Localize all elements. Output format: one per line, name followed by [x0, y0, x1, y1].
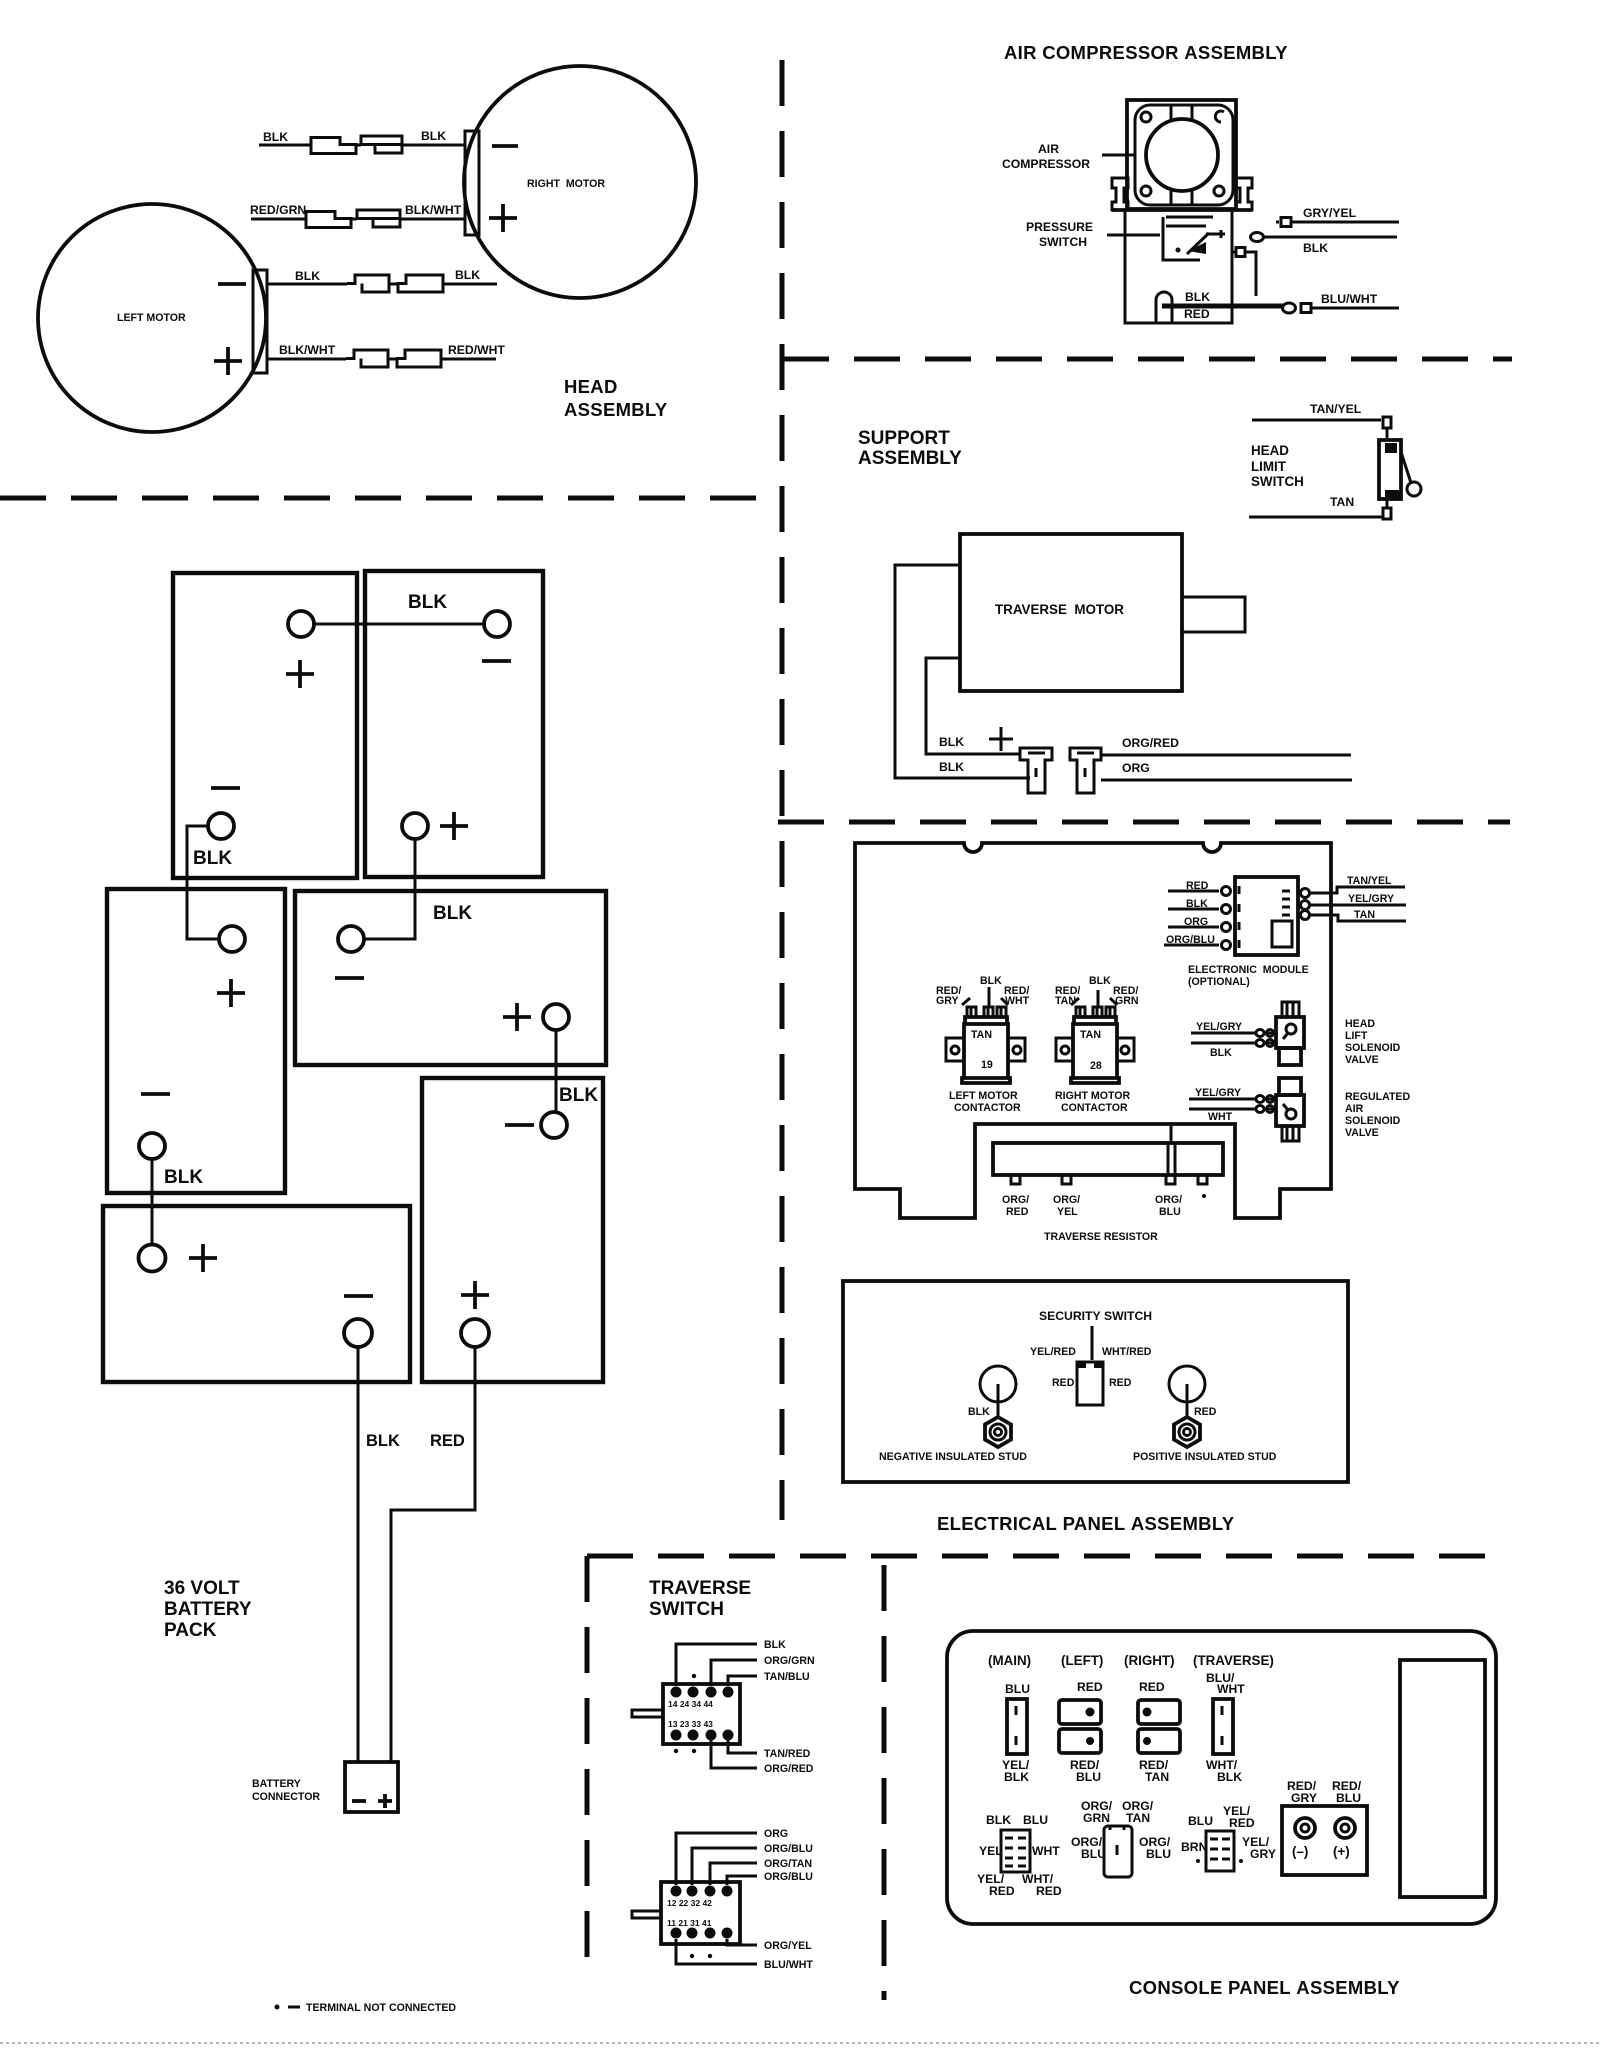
svg-text:ORG/: ORG/ — [1002, 1194, 1029, 1206]
compressor left mount bracket — [1112, 178, 1128, 210]
svg-text:GRY/YEL: GRY/YEL — [1303, 206, 1357, 220]
svg-text:ORG/: ORG/ — [1053, 1194, 1080, 1206]
svg-text:HEAD: HEAD — [564, 376, 618, 397]
K2 right ear — [1117, 1038, 1134, 1061]
svg-text:GRN: GRN — [1115, 995, 1139, 1007]
connector P3 body — [1206, 1831, 1234, 1871]
block A lever — [632, 1710, 663, 1717]
svg-text:BLK: BLK — [295, 269, 320, 283]
security switch S1 — [1077, 1362, 1103, 1405]
wire TAN/YEL to head limit switch — [1252, 419, 1381, 422]
wire YEL/GRY from module — [1310, 904, 1406, 907]
negative stud nut inner — [990, 1424, 1006, 1440]
battery B2 — [365, 571, 543, 877]
wire BLK to battery connector — [357, 1347, 360, 1762]
module right terminal 3 — [1301, 911, 1310, 920]
connector row3 female — [347, 275, 389, 292]
svg-text:HEAD: HEAD — [1345, 1018, 1375, 1030]
battery B6 — [103, 1206, 410, 1382]
CB1 upper half — [1059, 1700, 1101, 1724]
svg-text:RED: RED — [1109, 1377, 1132, 1389]
module left pin ticks — [1238, 886, 1241, 948]
terminal nut minus — [1295, 1818, 1315, 1838]
svg-text:11 21 31 41: 11 21 31 41 — [667, 1918, 712, 1928]
battery B1 — [173, 573, 357, 878]
module right terminal 1 — [1301, 889, 1310, 898]
svg-text:TAN/RED: TAN/RED — [764, 1748, 811, 1760]
wire ORG/TAN — [710, 1863, 757, 1885]
terminal ORG — [1222, 923, 1231, 932]
B1 plus — [286, 660, 314, 688]
svg-text:TAN: TAN — [1145, 1770, 1169, 1784]
block A bottom terminals — [671, 1730, 682, 1741]
B5 bottom terminal — [461, 1319, 489, 1347]
svg-text:ASSEMBLY: ASSEMBLY — [564, 399, 668, 420]
svg-text:YEL/GRY: YEL/GRY — [1196, 1021, 1242, 1033]
svg-text:COMPRESSOR: COMPRESSOR — [1002, 157, 1090, 171]
V2 WHT connector dots — [1256, 1106, 1264, 1113]
fuse F1 body — [1007, 1699, 1027, 1754]
svg-text:GRY: GRY — [1250, 1847, 1276, 1861]
wire B1 to B3 — [187, 826, 219, 939]
svg-text:ORG/RED: ORG/RED — [1122, 736, 1179, 750]
svg-text:WHT: WHT — [1217, 1682, 1245, 1696]
svg-text:RED: RED — [1006, 1206, 1029, 1218]
block B top terminals — [671, 1886, 682, 1897]
tab4 dot — [1202, 1194, 1206, 1198]
svg-text:CONTACTOR: CONTACTOR — [1061, 1102, 1128, 1114]
connector flag right — [1070, 748, 1101, 793]
wire row3 left motor minus BLK — [267, 283, 497, 286]
B4 right terminal — [543, 1004, 569, 1030]
head limit switch SW1 body — [1379, 440, 1401, 499]
svg-text:(TRAVERSE): (TRAVERSE) — [1193, 1653, 1274, 1668]
traverse resistor R1 body — [993, 1143, 1223, 1175]
svg-text:ELECTRICAL PANEL ASSEMBLY: ELECTRICAL PANEL ASSEMBLY — [937, 1513, 1235, 1534]
electronic module U1 — [1235, 877, 1298, 955]
CB1 lower half — [1059, 1729, 1101, 1753]
air compressor body plate — [1135, 105, 1233, 205]
svg-text:BLK: BLK — [1210, 1047, 1232, 1059]
svg-text:TRAVERSE MOTOR: TRAVERSE MOTOR — [995, 602, 1124, 617]
CB2 upper half — [1138, 1700, 1180, 1724]
wire RED to module — [1168, 890, 1219, 893]
left motor minus terminal — [218, 282, 246, 286]
battery B4 — [295, 891, 606, 1065]
switch block A body — [663, 1684, 740, 1744]
svg-text:POSITIVE INSULATED STUD: POSITIVE INSULATED STUD — [1133, 1451, 1277, 1463]
B6 top terminal — [139, 1245, 166, 1272]
head limit switch bottom terminal — [1383, 508, 1391, 519]
svg-text:RIGHT MOTOR: RIGHT MOTOR — [1055, 1090, 1130, 1102]
solenoid V1 coil mark — [1286, 1024, 1296, 1034]
B1 minus — [211, 786, 240, 790]
negative stud nut — [985, 1417, 1011, 1447]
terminal nut plus — [1335, 1818, 1355, 1838]
svg-text:GRY: GRY — [936, 995, 959, 1007]
positive stud stem — [1186, 1384, 1189, 1418]
svg-text:CONSOLE PANEL ASSEMBLY: CONSOLE PANEL ASSEMBLY — [1129, 1977, 1400, 1998]
B1 bottom terminal — [208, 813, 234, 839]
svg-text:GRY: GRY — [1291, 1791, 1317, 1805]
module inner card — [1272, 921, 1292, 947]
svg-text:LIFT: LIFT — [1345, 1030, 1368, 1042]
P1 pin dashes — [1005, 1838, 1026, 1866]
wire row1 BLK to right motor minus — [259, 144, 465, 147]
K1 BLK pointer — [988, 987, 991, 1006]
svg-text:14 24 34 44: 14 24 34 44 — [668, 1699, 713, 1709]
bolt hole bottom-right — [1214, 186, 1224, 196]
connector P1 body — [1001, 1830, 1030, 1872]
plus sign — [989, 727, 1013, 751]
head limit switch lower contact — [1385, 490, 1400, 498]
dashed traverse switch box right — [882, 1565, 887, 2000]
svg-text:TRAVERSE: TRAVERSE — [649, 1578, 751, 1599]
svg-text:SOLENOID: SOLENOID — [1345, 1115, 1401, 1127]
svg-text:BLU: BLU — [1005, 1682, 1030, 1696]
B6 bottom terminal — [344, 1319, 372, 1347]
svg-text:28: 28 — [1090, 1060, 1102, 1072]
K1 left ear hole — [951, 1046, 959, 1054]
B4 left terminal — [338, 926, 364, 952]
svg-text:RED: RED — [1036, 1884, 1062, 1898]
svg-text:WHT/RED: WHT/RED — [1102, 1346, 1152, 1358]
svg-text:36 VOLT: 36 VOLT — [164, 1578, 240, 1599]
svg-text:ORG: ORG — [1122, 761, 1150, 775]
svg-text:(+): (+) — [1333, 1844, 1350, 1859]
svg-text:BLU: BLU — [1159, 1206, 1181, 1218]
switch block B body — [661, 1882, 740, 1944]
air compressor outer frame — [1127, 100, 1236, 209]
svg-text:BLK: BLK — [1089, 975, 1111, 987]
pointer line to compressor — [1102, 154, 1135, 157]
dashed partition vertical center — [780, 60, 785, 1520]
svg-text:BLK: BLK — [980, 975, 1002, 987]
resistor tab 2 — [1062, 1175, 1071, 1184]
left motor plus terminal — [214, 347, 242, 375]
wire link B1-B2 — [314, 623, 484, 626]
connector row2 female — [357, 210, 400, 227]
solenoid V1 head lift pins — [1282, 1002, 1299, 1017]
right motor plus terminal — [489, 204, 517, 232]
connector flag left — [1020, 748, 1052, 793]
wire ORG/GRN — [711, 1660, 757, 1686]
head limit switch top terminal — [1383, 417, 1391, 428]
B5 plus — [461, 1281, 489, 1309]
K1 right ear hole — [1013, 1046, 1021, 1054]
svg-text:BLU/WHT: BLU/WHT — [764, 1959, 813, 1971]
svg-text:TAN: TAN — [1354, 909, 1375, 921]
K1 label pointer slashes — [962, 998, 1008, 1005]
dashed partition below head assembly — [0, 496, 770, 501]
wire BLK to V1 — [1191, 1042, 1276, 1045]
resistor divider — [1168, 1143, 1175, 1175]
svg-text:(RIGHT): (RIGHT) — [1124, 1653, 1175, 1668]
block A top terminals — [671, 1687, 682, 1698]
svg-text:ORG/YEL: ORG/YEL — [764, 1940, 812, 1952]
V2 wire connector dots — [1256, 1096, 1264, 1103]
dashed partition below air compressor — [783, 357, 1512, 362]
svg-text:ASSEMBLY: ASSEMBLY — [858, 448, 962, 469]
svg-text:RIGHT MOTOR: RIGHT MOTOR — [527, 178, 605, 190]
svg-text:CONNECTOR: CONNECTOR — [252, 1791, 320, 1803]
svg-text:YEL/GRY: YEL/GRY — [1348, 893, 1394, 905]
resistor tab 1 — [1011, 1175, 1020, 1184]
B3 minus — [141, 1092, 170, 1096]
CB1 dots — [1086, 1708, 1095, 1717]
svg-text:TAN: TAN — [1126, 1811, 1150, 1825]
K2 BLK pointer — [1097, 990, 1100, 1006]
wire ORG/BLU 2 — [727, 1876, 757, 1885]
svg-text:BLK: BLK — [1186, 898, 1208, 910]
wire ORG/BLU to module — [1164, 944, 1219, 947]
dashed partition above electrical panel — [778, 820, 1510, 825]
svg-text:TRAVERSE RESISTOR: TRAVERSE RESISTOR — [1044, 1231, 1158, 1243]
svg-text:RED: RED — [1194, 1406, 1217, 1418]
svg-text:TAN: TAN — [1330, 495, 1354, 509]
battery connector plus — [378, 1794, 392, 1808]
wire B4 to B5 — [555, 1030, 558, 1112]
positive stud ring — [1169, 1366, 1205, 1402]
svg-text:NEGATIVE INSULATED STUD: NEGATIVE INSULATED STUD — [879, 1451, 1027, 1463]
wire ORG — [676, 1833, 757, 1885]
B4 minus — [335, 976, 364, 980]
negative stud stem — [997, 1384, 1000, 1418]
K2 bolt middle — [1093, 1007, 1102, 1017]
CB2 dots — [1143, 1708, 1152, 1717]
block A nc dots below — [674, 1749, 678, 1753]
B3 top terminal — [219, 926, 245, 952]
battery connector minus — [352, 1799, 366, 1803]
console inner window — [1400, 1660, 1485, 1897]
svg-text:ORG/TAN: ORG/TAN — [764, 1858, 812, 1870]
P3 pin dashes — [1210, 1839, 1230, 1859]
svg-text:12 22 32 42: 12 22 32 42 — [667, 1898, 712, 1908]
head limit switch lever — [1401, 452, 1411, 483]
K2 left ear — [1056, 1038, 1073, 1061]
B3 bottom terminal — [139, 1133, 165, 1159]
wire YEL/GRY to V1 — [1191, 1032, 1276, 1035]
svg-text:BLK: BLK — [939, 735, 964, 749]
svg-text:TAN: TAN — [1055, 995, 1076, 1007]
resistor tab 4 — [1198, 1175, 1207, 1184]
svg-text:BLU: BLU — [1336, 1791, 1361, 1805]
svg-text:BLK: BLK — [455, 268, 480, 282]
bolt hole bottom-left — [1141, 186, 1151, 196]
svg-text:VALVE: VALVE — [1345, 1127, 1379, 1139]
svg-text:PACK: PACK — [164, 1620, 217, 1641]
pointer line — [1091, 1326, 1094, 1360]
svg-text:ELECTRONIC MODULE: ELECTRONIC MODULE — [1188, 964, 1309, 976]
solenoid V1 lower body — [1279, 1048, 1301, 1065]
svg-text:CONTACTOR: CONTACTOR — [954, 1102, 1021, 1114]
negative stud ring — [980, 1366, 1016, 1402]
solenoid V2 coil mark — [1286, 1109, 1296, 1119]
terminal block body — [1282, 1806, 1367, 1875]
pressure switch right terminal — [1206, 230, 1225, 238]
traverse motor M3 — [960, 534, 1182, 691]
wire row2 RED/GRN to right motor plus — [251, 218, 465, 221]
block B nc dots below — [690, 1954, 694, 1958]
svg-text:ORG: ORG — [764, 1828, 788, 1840]
connector GRY/YEL — [1276, 218, 1291, 227]
svg-text:AIR COMPRESSOR ASSEMBLY: AIR COMPRESSOR ASSEMBLY — [1004, 42, 1288, 63]
svg-text:RED: RED — [1139, 1680, 1165, 1694]
head limit switch upper contact — [1385, 443, 1397, 453]
svg-text:AIR: AIR — [1345, 1103, 1364, 1115]
positive stud nut inner — [1179, 1424, 1195, 1440]
wire from motor top-left down — [895, 565, 1030, 778]
pressure switch body — [1125, 210, 1232, 323]
svg-text:BLK: BLK — [1303, 241, 1328, 255]
svg-text:RED/GRN: RED/GRN — [250, 203, 306, 217]
svg-text:BLU/WHT: BLU/WHT — [1321, 292, 1378, 306]
svg-text:BATTERY: BATTERY — [164, 1599, 252, 1620]
wire BLK — [1264, 236, 1397, 239]
resistor tab 3 — [1166, 1175, 1175, 1184]
svg-text:PRESSURE: PRESSURE — [1026, 220, 1093, 234]
solenoid V2 body — [1276, 1095, 1304, 1126]
compressor base line — [1112, 208, 1252, 212]
pressure switch contact dot — [1176, 248, 1181, 253]
B6 plus — [189, 1244, 217, 1272]
wire loop at bottom of switch — [1156, 292, 1172, 323]
CB2 lower half — [1138, 1729, 1180, 1753]
P2 top ticks — [1110, 1826, 1124, 1855]
connector P2 body — [1104, 1826, 1132, 1877]
B4 plus — [503, 1003, 531, 1031]
pressure switch mechanism — [1163, 217, 1213, 260]
svg-text:BLK: BLK — [1217, 1770, 1242, 1784]
connector ring BLU/WHT — [1283, 303, 1296, 313]
solenoid V2 pins — [1282, 1126, 1299, 1141]
wire ORG/BLU — [692, 1848, 757, 1885]
wire RED to battery connector — [391, 1347, 475, 1762]
wire row4 left motor plus BLK/WHT — [267, 358, 496, 361]
svg-text:RED: RED — [430, 1432, 465, 1450]
svg-text:RED: RED — [1052, 1377, 1075, 1389]
svg-text:ORG/RED: ORG/RED — [764, 1763, 814, 1775]
svg-text:YEL/RED: YEL/RED — [1030, 1346, 1076, 1358]
head limit switch stem top — [1386, 428, 1389, 440]
svg-text:SUPPORT: SUPPORT — [858, 428, 950, 449]
B2 bottom terminal — [402, 813, 428, 839]
battery B5 — [422, 1078, 603, 1382]
air compressor fan circle — [1146, 119, 1218, 191]
traverse motor shaft — [1182, 597, 1245, 632]
solenoid V2 regulated air upper body — [1279, 1078, 1301, 1095]
right motor minus terminal — [492, 144, 518, 148]
compressor top notch lines — [1171, 104, 1192, 119]
svg-text:TERMINAL NOT CONNECTED: TERMINAL NOT CONNECTED — [306, 2002, 456, 2014]
wire BLK — [676, 1644, 757, 1686]
wire TAN/RED — [728, 1740, 757, 1753]
svg-text:SWITCH: SWITCH — [1039, 235, 1087, 249]
svg-text:BLK: BLK — [433, 903, 472, 924]
contactor K1 body — [962, 1017, 1010, 1083]
connector row4 female — [346, 350, 388, 367]
svg-text:BLK: BLK — [559, 1085, 598, 1106]
K2 right ear hole — [1121, 1046, 1129, 1054]
bolt hole top-left — [1141, 112, 1151, 122]
wire ORG/RED right — [1101, 754, 1351, 757]
wire TAN/YEL from module — [1310, 887, 1405, 893]
svg-text:BLK/WHT: BLK/WHT — [279, 343, 336, 357]
svg-text:SECURITY SWITCH: SECURITY SWITCH — [1039, 1309, 1152, 1323]
svg-text:BLK: BLK — [164, 1167, 203, 1188]
module right terminal 2 — [1301, 901, 1310, 910]
K1 bolt middle — [984, 1007, 993, 1017]
svg-text:BLK: BLK — [263, 130, 288, 144]
svg-text:REGULATED: REGULATED — [1345, 1091, 1410, 1103]
svg-text:YEL: YEL — [1057, 1206, 1078, 1218]
svg-text:BLK: BLK — [408, 592, 447, 613]
connector row2 male — [306, 212, 351, 228]
K1 bolt right — [997, 1007, 1006, 1017]
security box — [843, 1281, 1348, 1482]
svg-text:LEFT MOTOR: LEFT MOTOR — [949, 1090, 1018, 1102]
wire B3 to B6 — [151, 1159, 154, 1244]
svg-text:RED: RED — [1184, 307, 1210, 321]
wire BLK to module — [1168, 908, 1219, 911]
svg-text:HEAD: HEAD — [1251, 443, 1289, 458]
B3 plus — [217, 979, 245, 1007]
svg-text:RED: RED — [1077, 1680, 1103, 1694]
svg-text:BLK: BLK — [193, 848, 232, 869]
motor M2 right motor — [464, 66, 696, 298]
B2 plus — [440, 812, 468, 840]
wire TAN from module — [1310, 915, 1406, 921]
K2 bolt left — [1076, 1007, 1085, 1017]
wire TAN — [1249, 516, 1383, 519]
left motor terminal block — [253, 270, 267, 373]
svg-text:BLU: BLU — [1076, 1770, 1101, 1784]
svg-text:(–): (–) — [1292, 1844, 1308, 1859]
K2 bolt right — [1106, 1007, 1115, 1017]
svg-text:WHT: WHT — [1005, 995, 1030, 1007]
svg-text:SOLENOID: SOLENOID — [1345, 1042, 1401, 1054]
svg-text:(OPTIONAL): (OPTIONAL) — [1188, 976, 1250, 988]
wire GRY/YEL — [1291, 221, 1399, 224]
battery B3 — [107, 889, 285, 1193]
fuse F2 body — [1213, 1699, 1233, 1754]
wire WHT to V2 — [1189, 1108, 1276, 1111]
svg-text:LEFT MOTOR: LEFT MOTOR — [117, 312, 186, 324]
contactor K2 body — [1071, 1017, 1119, 1083]
switch corner terminals — [1078, 1362, 1086, 1368]
K2 left ear hole — [1061, 1046, 1069, 1054]
block B lever — [632, 1911, 661, 1918]
block A nc dot above — [692, 1674, 696, 1678]
P3 nc dots — [1196, 1859, 1200, 1863]
svg-text:BLK/WHT: BLK/WHT — [405, 203, 462, 217]
V1 BLK connector dots — [1256, 1040, 1264, 1047]
terminal stub upper right of switch — [1232, 248, 1245, 257]
wire ORG/YEL — [727, 1939, 757, 1945]
K1 left ear — [946, 1038, 964, 1061]
wire ORG to module — [1168, 926, 1219, 929]
B6 minus — [344, 1294, 373, 1298]
svg-text:GRN: GRN — [1083, 1811, 1110, 1825]
connector row4 male — [397, 350, 441, 367]
svg-text:BLK: BLK — [366, 1432, 400, 1450]
svg-text:BLU: BLU — [1023, 1813, 1048, 1827]
svg-text:BLK: BLK — [1185, 290, 1210, 304]
svg-text:ORG/GRN: ORG/GRN — [764, 1655, 815, 1667]
connector row3 male — [398, 275, 443, 292]
svg-text:TAN: TAN — [971, 1029, 992, 1041]
solenoid V1 body — [1276, 1017, 1304, 1048]
